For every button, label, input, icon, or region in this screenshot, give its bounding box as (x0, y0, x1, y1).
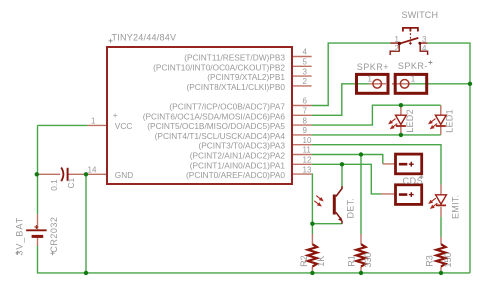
svg-text:1: 1 (411, 75, 416, 84)
svg-text:1: 1 (395, 35, 400, 44)
svg-text:1: 1 (368, 75, 373, 84)
svg-text:(PCINT0/AREF/ADC0)PA0: (PCINT0/AREF/ADC0)PA0 (186, 170, 285, 180)
svg-text:150: 150 (443, 252, 453, 267)
svg-text:4: 4 (422, 44, 427, 53)
svg-text:6: 6 (303, 97, 308, 106)
svg-text:2: 2 (395, 44, 400, 53)
svg-text:SPKR-: SPKR- (398, 61, 428, 71)
svg-text:3: 3 (422, 35, 427, 44)
svg-text:(PCINT5/OC1B/MISO/DO/ADC5)PA5: (PCINT5/OC1B/MISO/DO/ADC5)PA5 (147, 121, 285, 131)
svg-text:(PCINT10/INT0/OC0A/CKOUT)PB2: (PCINT10/INT0/OC0A/CKOUT)PB2 (153, 62, 285, 72)
svg-text:330: 330 (363, 252, 373, 267)
svg-text:VCC: VCC (115, 121, 133, 131)
svg-text:(PCINT2/AIN1/ADC2)PA2: (PCINT2/AIN1/ADC2)PA2 (190, 151, 286, 161)
svg-text:3V_BAT: 3V_BAT (15, 217, 25, 256)
svg-text:CR2032: CR2032 (49, 217, 59, 253)
svg-text:0.1: 0.1 (49, 179, 59, 191)
svg-text:1: 1 (91, 117, 96, 126)
svg-text:12: 12 (303, 156, 312, 165)
svg-text:8: 8 (303, 116, 308, 125)
svg-text:14: 14 (88, 165, 97, 174)
svg-text:LED2: LED2 (405, 109, 415, 133)
svg-text:LED1: LED1 (445, 109, 455, 133)
svg-text:(PCINT7/ICP/OC0B/ADC7)PA7: (PCINT7/ICP/OC0B/ADC7)PA7 (169, 102, 285, 112)
svg-text:EMIT.: EMIT. (451, 194, 461, 219)
svg-text:(PCINT4/T1/SCL/USCK/ADC4)PA4: (PCINT4/T1/SCL/USCK/ADC4)PA4 (155, 131, 286, 141)
svg-text:C1: C1 (66, 178, 76, 189)
svg-text:(PCINT6/OC1A/SDA/MOSI/ADC6)PA6: (PCINT6/OC1A/SDA/MOSI/ADC6)PA6 (143, 111, 286, 121)
svg-text:(PCINT11/RESET/DW)PB3: (PCINT11/RESET/DW)PB3 (184, 53, 285, 63)
svg-text:4: 4 (303, 48, 308, 57)
svg-text:9: 9 (303, 126, 308, 135)
svg-text:7: 7 (303, 107, 308, 116)
svg-text:R1: R1 (347, 255, 357, 267)
svg-text:5: 5 (303, 58, 308, 67)
svg-text:+: + (113, 110, 118, 120)
svg-text:DET.: DET. (346, 198, 356, 219)
svg-text:R3: R3 (424, 255, 434, 267)
svg-text:(PCINT9/XTAL2)PB1: (PCINT9/XTAL2)PB1 (207, 72, 285, 82)
svg-text:GND: GND (115, 170, 133, 180)
svg-text:1K: 1K (316, 256, 326, 267)
svg-text:SPKR+: SPKR+ (357, 62, 389, 72)
svg-text:3: 3 (303, 67, 308, 76)
svg-text:R2: R2 (299, 255, 309, 267)
svg-text:(PCINT8/XTAL1/CLKI)PB0: (PCINT8/XTAL1/CLKI)PB0 (186, 82, 285, 92)
svg-text:SWITCH: SWITCH (402, 10, 439, 20)
svg-text:11: 11 (303, 146, 312, 155)
svg-text:TINY24/44/84V: TINY24/44/84V (112, 32, 177, 42)
svg-text:CDS: CDS (403, 176, 424, 186)
svg-text:10: 10 (303, 136, 312, 145)
svg-text:(PCINT1/AIN0/ADC1)PA1: (PCINT1/AIN0/ADC1)PA1 (190, 160, 286, 170)
svg-text:(PCINT3/T0/ADC3)PA3: (PCINT3/T0/ADC3)PA3 (198, 141, 285, 151)
svg-text:2: 2 (303, 77, 308, 86)
svg-text:13: 13 (303, 165, 312, 174)
